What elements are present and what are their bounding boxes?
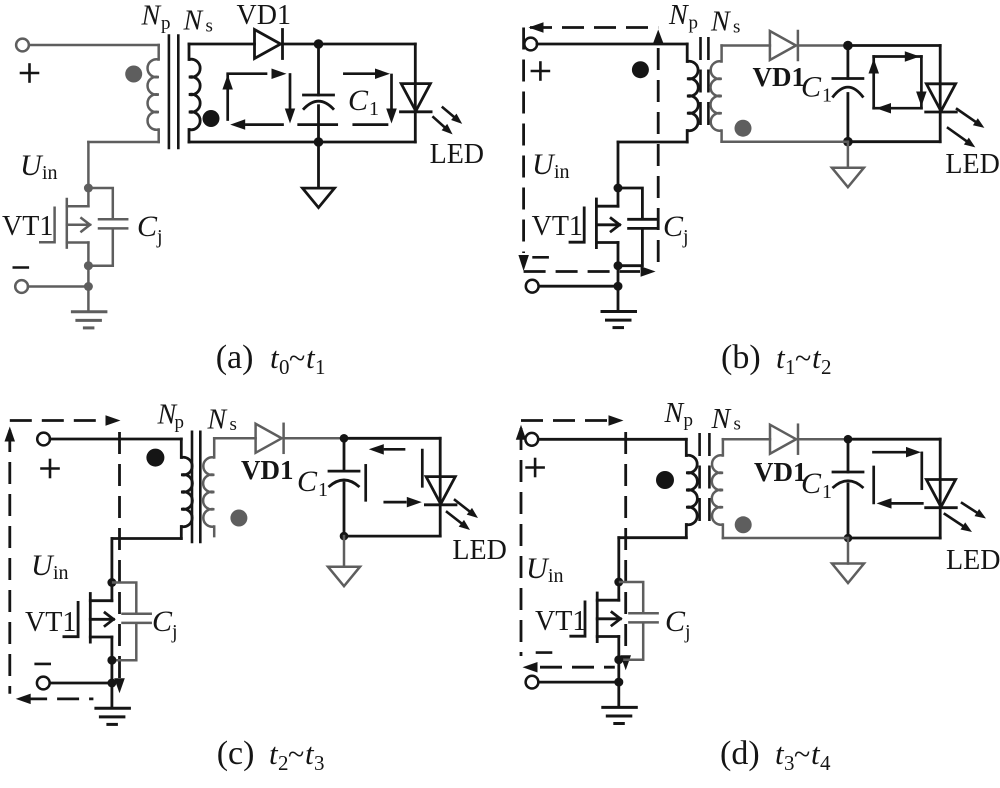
svg-text:1: 1 [369,98,379,120]
svg-text:s: s [734,414,741,435]
svg-text:1: 1 [785,355,796,379]
svg-text:VT1: VT1 [2,211,53,242]
svg-text:j: j [156,226,163,248]
svg-text:in: in [554,161,570,183]
svg-text:LED: LED [945,149,999,180]
svg-text:C: C [348,84,369,117]
svg-text:N: N [710,7,731,38]
svg-text:1: 1 [822,85,832,107]
svg-text:C: C [665,605,686,638]
svg-text:U: U [20,149,44,182]
svg-text:C: C [663,210,684,243]
svg-text:VT1: VT1 [535,606,586,637]
svg-text:2: 2 [278,751,289,775]
svg-text:C: C [297,465,318,498]
svg-text:N: N [207,404,228,435]
svg-text:C: C [137,210,158,243]
svg-text:1: 1 [822,481,832,503]
svg-text:j: j [684,621,691,643]
svg-text:0: 0 [279,355,290,379]
svg-text:(b): (b) [721,339,761,376]
svg-text:~: ~ [795,342,811,375]
svg-text:LED: LED [430,139,484,170]
svg-text:4: 4 [820,751,831,775]
svg-text:C: C [801,71,822,104]
svg-text:(a): (a) [216,339,254,376]
svg-text:j: j [171,621,178,643]
svg-text:N: N [664,398,685,429]
svg-text:p: p [684,410,694,431]
svg-text:~: ~ [288,738,304,771]
svg-text:VT1: VT1 [532,211,583,242]
svg-text:in: in [548,565,564,587]
svg-text:3: 3 [784,751,795,775]
svg-text:(d): (d) [720,735,760,772]
svg-text:N: N [711,404,732,435]
svg-text:s: s [230,414,237,435]
svg-text:in: in [42,162,58,184]
svg-text:VT1: VT1 [25,607,76,638]
svg-text:VD1: VD1 [753,62,806,92]
svg-text:in: in [53,562,69,584]
svg-text:VD1: VD1 [241,455,294,485]
svg-text:~: ~ [289,342,305,375]
svg-text:3: 3 [314,751,325,775]
svg-text:LED: LED [452,535,506,566]
svg-text:2: 2 [821,355,832,379]
svg-text:j: j [682,226,689,248]
svg-text:(c): (c) [217,735,255,772]
svg-text:VD1: VD1 [237,0,291,31]
svg-text:C: C [801,467,822,500]
svg-text:s: s [206,16,213,37]
svg-text:p: p [175,412,185,433]
svg-text:LED: LED [946,545,1000,576]
svg-text:~: ~ [794,738,810,771]
svg-text:U: U [532,148,556,181]
svg-text:N: N [668,0,689,31]
svg-text:p: p [689,13,699,34]
svg-text:U: U [526,552,550,585]
svg-text:U: U [31,549,55,582]
svg-text:1: 1 [315,355,326,379]
svg-text:C: C [152,605,173,638]
svg-text:N: N [141,1,162,32]
svg-text:VD1: VD1 [754,457,807,487]
svg-text:1: 1 [318,479,328,501]
svg-text:N: N [183,6,204,37]
svg-text:p: p [161,13,171,34]
svg-text:s: s [733,17,740,38]
